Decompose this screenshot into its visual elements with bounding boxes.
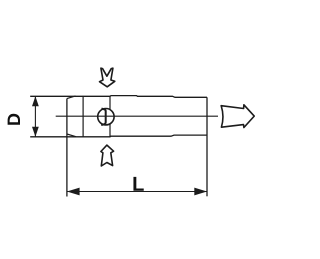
left tip face + L extension line [66,99,68,197]
center line (part axis) [56,115,218,117]
section line x=83 [82,96,84,137]
section line x=110 upper [109,96,111,110]
label L [133,177,143,191]
arrowhead L right [194,188,207,196]
body top edge with step [30,96,207,98]
chamfer bottom [67,134,76,137]
arrowhead D bottom [32,127,39,137]
label D [8,114,20,125]
chamfer top [67,96,76,99]
dimension line L [67,191,207,193]
body bottom edge with step [30,135,207,137]
arrowhead D top [32,96,39,106]
hollow arrow up (bottom) [101,145,114,166]
cross hole circle [98,109,114,125]
dimension line D [34,96,36,136]
right end face [206,97,208,196]
section line x=110 lower [109,124,111,137]
hollow arrow down (top) [100,68,115,87]
hollow arrow right [221,105,254,128]
inner hole detail [101,109,106,125]
arrowhead L left [67,188,80,196]
